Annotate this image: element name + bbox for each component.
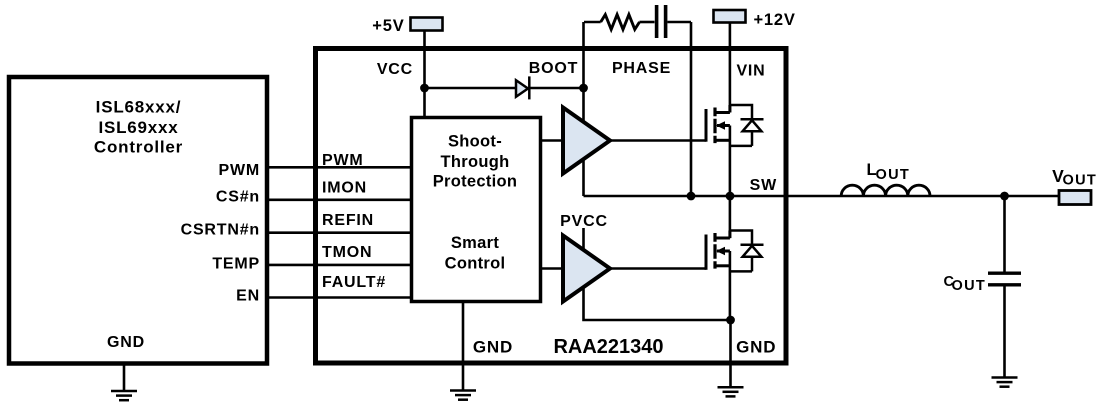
svg-text:VIN: VIN: [736, 63, 765, 80]
svg-text:CS#n: CS#n: [216, 189, 260, 206]
svg-text:GND: GND: [473, 338, 513, 357]
svg-text:Protection: Protection: [433, 173, 518, 191]
svg-text:GND: GND: [736, 338, 776, 357]
svg-text:VCC: VCC: [377, 61, 413, 78]
svg-text:OUT: OUT: [1063, 172, 1098, 188]
svg-text:TMON: TMON: [322, 244, 372, 261]
svg-text:Shoot-: Shoot-: [448, 132, 502, 150]
svg-text:BOOT: BOOT: [529, 60, 578, 77]
svg-text:OUT: OUT: [952, 278, 987, 294]
svg-text:PHASE: PHASE: [612, 60, 671, 77]
svg-text:CSRTN#n: CSRTN#n: [181, 222, 260, 239]
svg-text:FAULT#: FAULT#: [322, 274, 386, 291]
svg-text:Smart: Smart: [451, 234, 499, 252]
svg-text:SW: SW: [750, 177, 777, 194]
svg-text:Controller: Controller: [94, 138, 183, 157]
svg-text:PWM: PWM: [218, 162, 260, 179]
svg-text:RAA221340: RAA221340: [553, 336, 663, 358]
svg-text:EN: EN: [236, 287, 260, 304]
svg-text:ISL68xxx/: ISL68xxx/: [96, 97, 182, 116]
svg-text:+12V: +12V: [754, 11, 796, 29]
svg-text:ISL69xxx: ISL69xxx: [98, 118, 178, 137]
svg-text:IMON: IMON: [322, 179, 367, 196]
svg-text:+5V: +5V: [372, 17, 404, 35]
svg-text:OUT: OUT: [876, 167, 911, 183]
svg-text:PVCC: PVCC: [560, 213, 608, 230]
svg-text:Through: Through: [441, 153, 510, 171]
svg-text:Control: Control: [445, 254, 506, 272]
svg-text:PWM: PWM: [322, 152, 364, 169]
svg-text:TEMP: TEMP: [212, 256, 260, 273]
svg-text:REFIN: REFIN: [322, 212, 374, 229]
svg-text:GND: GND: [107, 334, 145, 351]
